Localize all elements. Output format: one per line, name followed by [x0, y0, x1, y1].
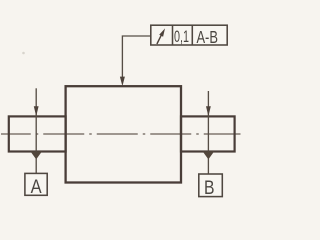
left dimension line through journal: [35, 88, 37, 151]
left datum connector line: [35, 159, 37, 174]
svg-text:B: B: [204, 177, 215, 199]
right datum triangle (filled): [203, 152, 214, 160]
right dimension line through journal: [207, 91, 209, 152]
datum box B: [199, 174, 223, 197]
frame divider 1: [172, 25, 174, 45]
paper background: [0, 0, 244, 204]
leader line from tolerance frame: [122, 36, 150, 78]
centerline (shaft axis, dash-dot): [1, 133, 241, 135]
svg-text:0,1: 0,1: [174, 27, 189, 46]
leader arrowhead on big cylinder: [120, 77, 125, 87]
right journal (small cylinder): [181, 116, 235, 151]
circular runout symbol (slanted arrow): [157, 35, 161, 44]
svg-text:A-B: A-B: [196, 27, 218, 47]
datum box A: [25, 173, 47, 195]
right datum connector line: [207, 159, 209, 175]
svg-text:A: A: [31, 176, 42, 198]
left top arrowhead: [34, 106, 39, 116]
faint scan speck: [22, 52, 25, 55]
frame divider 2: [191, 25, 193, 45]
feature control frame: [151, 25, 227, 45]
right top arrowhead: [206, 106, 211, 116]
left datum triangle (filled): [31, 152, 42, 160]
big cylinder (middle): [66, 86, 181, 182]
left journal (small cylinder): [9, 116, 66, 151]
